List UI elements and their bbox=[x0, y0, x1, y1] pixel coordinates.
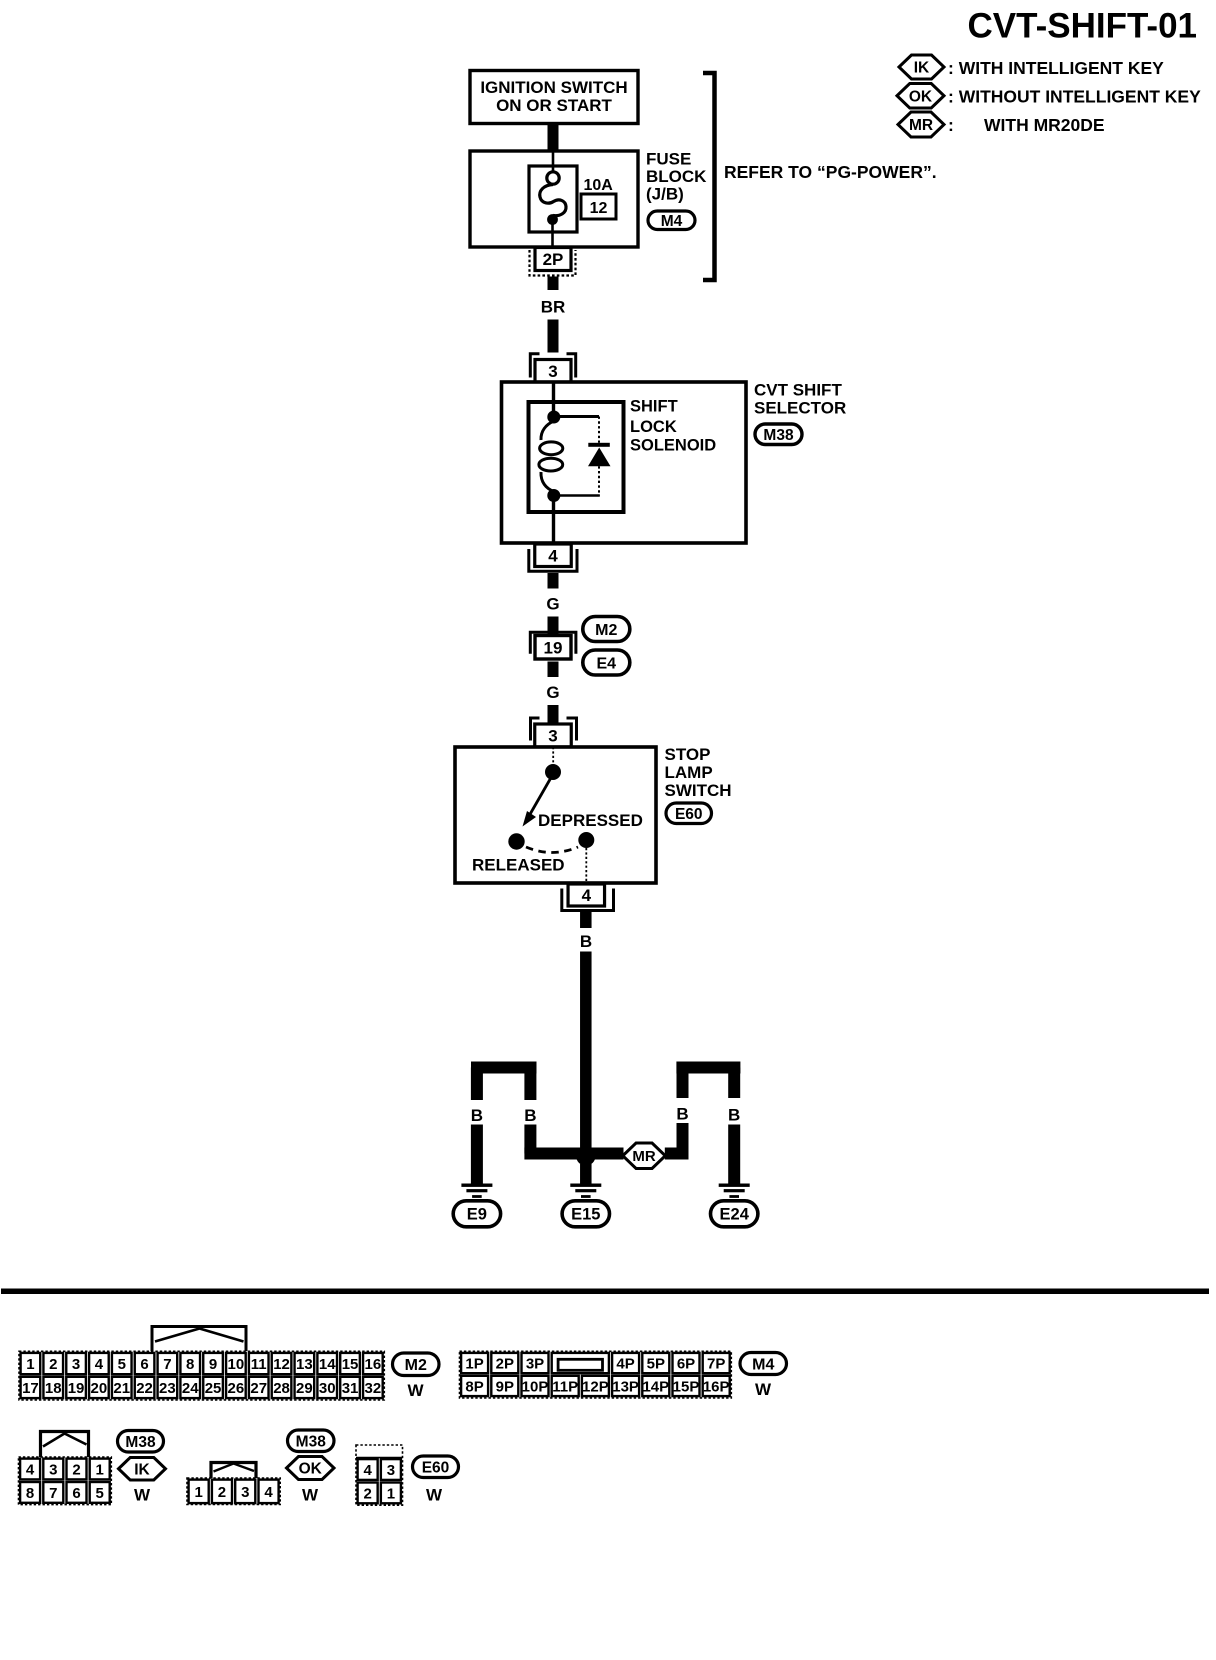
connector E60 color W bbox=[426, 1486, 443, 1505]
svg-text:G: G bbox=[546, 683, 559, 702]
connector ref E4 oval bbox=[583, 650, 630, 675]
svg-text:4: 4 bbox=[582, 886, 592, 905]
switch wire from pin 3 bbox=[552, 747, 554, 765]
svg-text:19: 19 bbox=[544, 638, 563, 657]
svg-text:9P: 9P bbox=[496, 1378, 514, 1395]
svg-text:3: 3 bbox=[548, 362, 557, 381]
wire label B right inner bbox=[676, 1105, 688, 1124]
wire G lower stub bbox=[548, 662, 559, 678]
fuse 10A box bbox=[529, 166, 577, 232]
svg-text:IGNITION SWITCH: IGNITION SWITCH bbox=[480, 78, 627, 97]
wire G to stop lamp switch bbox=[548, 705, 559, 724]
svg-text:10: 10 bbox=[228, 1356, 245, 1373]
svg-text:SOLENOID: SOLENOID bbox=[630, 437, 716, 455]
svg-text:14P: 14P bbox=[642, 1378, 669, 1395]
svg-text:W: W bbox=[426, 1486, 443, 1505]
switch contact depressed bbox=[578, 832, 594, 848]
svg-text:22: 22 bbox=[136, 1380, 153, 1397]
svg-text:15: 15 bbox=[342, 1356, 359, 1373]
connector ref E60 oval bbox=[666, 803, 712, 824]
svg-text:6: 6 bbox=[72, 1485, 80, 1502]
svg-text:B: B bbox=[524, 1106, 536, 1125]
wire label G upper bbox=[546, 595, 559, 614]
svg-text:M38: M38 bbox=[125, 1434, 156, 1451]
svg-text:5: 5 bbox=[96, 1485, 104, 1502]
svg-text:26: 26 bbox=[228, 1380, 245, 1397]
ignition switch box bbox=[470, 71, 638, 124]
connector ref M38 oval bbox=[755, 424, 802, 445]
svg-text:B: B bbox=[676, 1105, 688, 1124]
svg-text:6P: 6P bbox=[677, 1355, 695, 1372]
svg-text:3: 3 bbox=[387, 1462, 395, 1479]
legend symbol OK bbox=[897, 84, 944, 109]
connector face view M4 bbox=[460, 1351, 732, 1398]
svg-text:WITH MR20DE: WITH MR20DE bbox=[984, 115, 1105, 135]
svg-text:: WITHOUT INTELLIGENT KEY: : WITHOUT INTELLIGENT KEY bbox=[948, 87, 1201, 107]
svg-text:M38: M38 bbox=[296, 1433, 327, 1450]
svg-text:W: W bbox=[407, 1381, 424, 1400]
connector 3 M38 pin bbox=[530, 354, 575, 383]
svg-text:3: 3 bbox=[548, 727, 557, 746]
wire left inner vertical to junction bbox=[524, 1125, 536, 1154]
svg-text:: WITH INTELLIGENT KEY: : WITH INTELLIGENT KEY bbox=[948, 58, 1164, 78]
svg-text:M38: M38 bbox=[763, 427, 794, 444]
svg-text:3: 3 bbox=[72, 1356, 80, 1373]
connector M2 key tab bbox=[152, 1327, 246, 1352]
connector 2P bbox=[530, 248, 576, 276]
svg-text:10P: 10P bbox=[522, 1378, 549, 1395]
svg-text:13P: 13P bbox=[612, 1378, 639, 1395]
svg-text:M2: M2 bbox=[405, 1357, 427, 1374]
solenoid bottom junction bbox=[547, 489, 560, 502]
wire B stub below pin 4 bbox=[580, 911, 592, 928]
svg-text::: : bbox=[948, 115, 954, 135]
svg-text:1: 1 bbox=[194, 1484, 202, 1501]
wire label B left inner bbox=[524, 1106, 536, 1125]
svg-text:IK: IK bbox=[134, 1461, 150, 1478]
svg-text:13: 13 bbox=[296, 1356, 313, 1373]
wire BR lower segment bbox=[548, 320, 559, 353]
svg-text:SHIFT: SHIFT bbox=[630, 398, 678, 416]
svg-text:12: 12 bbox=[590, 200, 608, 217]
svg-text:M4: M4 bbox=[752, 1356, 774, 1373]
svg-text:11: 11 bbox=[251, 1356, 267, 1373]
wire label BR bbox=[541, 298, 566, 317]
svg-text:MR: MR bbox=[909, 117, 933, 134]
label FUSE BLOCK (J/B) bbox=[646, 150, 707, 204]
label SHIFT LOCK SOLENOID bbox=[630, 398, 716, 455]
ground E15 bbox=[570, 1184, 601, 1198]
fuse block J/B box bbox=[470, 151, 638, 247]
svg-text:21: 21 bbox=[113, 1380, 130, 1397]
svg-text:SWITCH: SWITCH bbox=[665, 781, 732, 800]
svg-text:G: G bbox=[546, 595, 559, 614]
connector face view M2 bbox=[19, 1351, 384, 1400]
svg-text:19: 19 bbox=[68, 1380, 85, 1397]
svg-text:30: 30 bbox=[319, 1380, 336, 1397]
switch arm with arrow bbox=[523, 779, 551, 827]
svg-text:W: W bbox=[134, 1486, 151, 1505]
svg-text:LAMP: LAMP bbox=[665, 763, 713, 782]
ground E9 bbox=[461, 1184, 492, 1198]
svg-text:W: W bbox=[302, 1486, 319, 1505]
svg-text:OK: OK bbox=[909, 88, 933, 105]
switch wire to pin 4 bbox=[585, 848, 587, 883]
wire label B center bbox=[580, 932, 592, 951]
svg-text:7: 7 bbox=[163, 1356, 171, 1373]
wire solenoid to pin 4 bbox=[552, 499, 555, 544]
wire label G lower bbox=[546, 683, 559, 702]
connector face ref M4 oval bbox=[740, 1353, 787, 1375]
svg-text:15P: 15P bbox=[673, 1378, 700, 1395]
svg-text:18: 18 bbox=[45, 1380, 62, 1397]
svg-text:5: 5 bbox=[118, 1356, 126, 1373]
svg-text:4: 4 bbox=[26, 1461, 35, 1478]
wire BR upper stub bbox=[548, 277, 559, 291]
svg-text:20: 20 bbox=[91, 1380, 108, 1397]
bracket refer to PG-POWER bbox=[703, 73, 715, 280]
fuse element bbox=[540, 152, 566, 247]
svg-text:2P: 2P bbox=[543, 250, 564, 269]
svg-text:E60: E60 bbox=[675, 806, 703, 823]
connector 19 M2-E4 pin bbox=[530, 632, 576, 659]
svg-text:27: 27 bbox=[250, 1380, 267, 1397]
svg-text:1: 1 bbox=[387, 1485, 395, 1502]
svg-text:M2: M2 bbox=[595, 622, 617, 639]
connector face ref M2 oval bbox=[393, 1353, 440, 1376]
connector M38 OK key tab bbox=[211, 1463, 256, 1479]
legend text WITHOUT INTELLIGENT KEY bbox=[948, 87, 1201, 107]
shift lock solenoid inner box bbox=[529, 402, 624, 512]
wire MR to right branch bbox=[665, 1148, 689, 1160]
fuse label 10A bbox=[584, 177, 614, 194]
svg-text:ON OR START: ON OR START bbox=[496, 96, 612, 115]
svg-text:2: 2 bbox=[363, 1485, 371, 1502]
wire G to connector 19 bbox=[548, 617, 559, 637]
svg-text:8P: 8P bbox=[465, 1378, 483, 1395]
svg-text:LOCK: LOCK bbox=[630, 418, 677, 436]
svg-text:5P: 5P bbox=[647, 1355, 665, 1372]
stop lamp switch box E60 bbox=[455, 747, 656, 883]
svg-text:29: 29 bbox=[296, 1380, 313, 1397]
connector face ref E60 oval bbox=[413, 1456, 459, 1478]
svg-text:4: 4 bbox=[264, 1484, 273, 1501]
svg-text:12: 12 bbox=[273, 1356, 290, 1373]
svg-text:4: 4 bbox=[548, 546, 558, 565]
connector face ref M38 oval (IK) bbox=[118, 1431, 164, 1453]
svg-text:(J/B): (J/B) bbox=[646, 185, 684, 204]
svg-text:31: 31 bbox=[342, 1380, 359, 1397]
connector face view M38 with OK bbox=[187, 1478, 280, 1505]
connector ref M4 oval bbox=[648, 211, 695, 230]
solenoid top junction bbox=[547, 411, 560, 424]
connector 3 E60 pin bbox=[531, 718, 577, 747]
title CVT-SHIFT-01 bbox=[968, 7, 1197, 46]
svg-text:E24: E24 bbox=[720, 1206, 750, 1224]
svg-text:24: 24 bbox=[182, 1380, 199, 1397]
svg-text:M4: M4 bbox=[661, 213, 683, 230]
wire label B far right bbox=[728, 1106, 740, 1125]
wire label B far left bbox=[471, 1106, 483, 1125]
legend text WITH MR20DE bbox=[948, 115, 1105, 135]
wire left U left vertical upper bbox=[471, 1068, 483, 1101]
wire into solenoid bbox=[552, 382, 555, 414]
connector 4 M38 pin bbox=[529, 544, 577, 571]
svg-text:25: 25 bbox=[205, 1380, 222, 1397]
connector M38 IK color W bbox=[134, 1486, 151, 1505]
svg-text:STOP: STOP bbox=[665, 745, 711, 764]
svg-text:REFER TO “PG-POWER”.: REFER TO “PG-POWER”. bbox=[724, 162, 937, 182]
svg-text:9: 9 bbox=[209, 1356, 217, 1373]
svg-text:IK: IK bbox=[914, 60, 930, 77]
svg-text:CVT-SHIFT-01: CVT-SHIFT-01 bbox=[968, 7, 1197, 46]
symbol OK bottom bbox=[287, 1457, 335, 1480]
svg-text:6: 6 bbox=[140, 1356, 148, 1373]
svg-text:3P: 3P bbox=[526, 1355, 544, 1372]
svg-text:OK: OK bbox=[299, 1461, 323, 1478]
wire right U left vertical upper bbox=[677, 1068, 689, 1099]
svg-text:BLOCK: BLOCK bbox=[646, 167, 707, 186]
svg-text:4: 4 bbox=[95, 1356, 104, 1373]
label RELEASED bbox=[472, 856, 565, 875]
legend symbol IK bbox=[899, 55, 944, 79]
switch contact released bbox=[508, 833, 524, 849]
svg-text:2P: 2P bbox=[496, 1355, 514, 1372]
CVT shift selector box M38 bbox=[502, 382, 747, 543]
solenoid coil bbox=[539, 421, 563, 492]
wire junction to MR bbox=[586, 1148, 624, 1160]
svg-text:2: 2 bbox=[218, 1484, 226, 1501]
wire right U right vertical upper bbox=[728, 1068, 740, 1099]
switch travel arc bbox=[526, 847, 578, 853]
wire right outer vertical to ground E24 bbox=[728, 1125, 740, 1185]
svg-text:10A: 10A bbox=[584, 177, 614, 194]
svg-text:W: W bbox=[755, 1380, 772, 1399]
ground E24 bbox=[719, 1184, 750, 1198]
label STOP LAMP SWITCH bbox=[665, 745, 732, 800]
wire G upper stub bbox=[548, 573, 559, 589]
symbol MR bbox=[623, 1143, 666, 1169]
svg-text:7P: 7P bbox=[707, 1355, 725, 1372]
svg-text:E60: E60 bbox=[422, 1459, 450, 1476]
svg-text:B: B bbox=[728, 1106, 740, 1125]
svg-text:1: 1 bbox=[96, 1461, 104, 1478]
connector M2 color W bbox=[407, 1381, 424, 1400]
svg-text:4P: 4P bbox=[616, 1355, 634, 1372]
svg-text:1P: 1P bbox=[465, 1355, 483, 1372]
svg-text:BR: BR bbox=[541, 298, 566, 317]
svg-text:11P: 11P bbox=[552, 1378, 578, 1395]
svg-text:16P: 16P bbox=[703, 1378, 730, 1395]
legend text WITH INTELLIGENT KEY bbox=[948, 58, 1164, 78]
wire junction horizontal left bbox=[524, 1148, 586, 1160]
svg-text:16: 16 bbox=[365, 1356, 382, 1373]
svg-text:23: 23 bbox=[159, 1380, 176, 1397]
svg-text:E15: E15 bbox=[571, 1206, 600, 1224]
diode D1 bbox=[556, 417, 611, 496]
svg-text:1: 1 bbox=[26, 1356, 34, 1373]
label DEPRESSED bbox=[538, 811, 643, 830]
svg-text:3: 3 bbox=[49, 1461, 57, 1478]
symbol IK bottom bbox=[119, 1458, 166, 1481]
svg-text:E4: E4 bbox=[597, 655, 617, 672]
junction dot bbox=[576, 1146, 595, 1165]
svg-text:28: 28 bbox=[273, 1380, 290, 1397]
svg-text:B: B bbox=[471, 1106, 483, 1125]
wire ignition switch to fuse block bbox=[548, 124, 559, 152]
wire right inner vertical to elbow bbox=[677, 1123, 689, 1154]
svg-text:CVT SHIFT: CVT SHIFT bbox=[754, 381, 842, 400]
svg-text:8: 8 bbox=[186, 1356, 194, 1373]
connector M38 IK key tab bbox=[41, 1432, 89, 1458]
connector face view E60 bbox=[356, 1445, 403, 1505]
svg-text:4: 4 bbox=[363, 1462, 372, 1479]
wire right U horizontal bbox=[676, 1062, 740, 1074]
label REFER TO PG-POWER bbox=[724, 162, 937, 182]
svg-text:FUSE: FUSE bbox=[646, 150, 691, 169]
svg-text:17: 17 bbox=[22, 1380, 39, 1397]
switch common contact bbox=[545, 764, 561, 780]
svg-text:7: 7 bbox=[49, 1485, 57, 1502]
svg-text:B: B bbox=[580, 932, 592, 951]
wire left U right vertical upper bbox=[524, 1068, 536, 1101]
svg-text:3: 3 bbox=[241, 1484, 249, 1501]
svg-text:2: 2 bbox=[72, 1461, 80, 1478]
wire B main vertical bbox=[580, 952, 592, 1149]
connector face ref M38 oval (OK) bbox=[288, 1430, 335, 1452]
connector ref M2 oval bbox=[583, 617, 630, 642]
wire left outer vertical to ground E9 bbox=[471, 1125, 483, 1185]
separator line bbox=[1, 1289, 1209, 1295]
connector M38 OK color W bbox=[302, 1486, 319, 1505]
fuse number 12 box bbox=[581, 194, 616, 219]
svg-text:DEPRESSED: DEPRESSED bbox=[538, 811, 643, 830]
wire junction to ground E15 bbox=[580, 1164, 592, 1185]
svg-text:SELECTOR: SELECTOR bbox=[754, 399, 846, 418]
svg-text:E9: E9 bbox=[467, 1206, 487, 1224]
svg-text:RELEASED: RELEASED bbox=[472, 856, 565, 875]
svg-text:32: 32 bbox=[365, 1380, 382, 1397]
connector 4 E60 pin bbox=[562, 884, 614, 911]
svg-text:2: 2 bbox=[49, 1356, 57, 1373]
label CVT SHIFT SELECTOR bbox=[754, 381, 846, 418]
connector face view M38 with IK bbox=[19, 1457, 112, 1505]
wire left U horizontal bbox=[471, 1062, 537, 1074]
svg-text:MR: MR bbox=[632, 1148, 655, 1165]
svg-text:12P: 12P bbox=[582, 1378, 609, 1395]
connector M4 color W bbox=[755, 1380, 772, 1399]
svg-text:8: 8 bbox=[26, 1485, 34, 1502]
svg-text:14: 14 bbox=[319, 1356, 336, 1373]
legend symbol MR bbox=[898, 112, 944, 137]
